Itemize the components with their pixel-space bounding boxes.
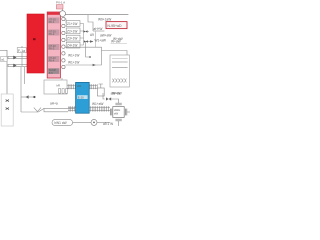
wire bus right of boxes <box>80 24 84 46</box>
U1 top flange <box>115 103 121 105</box>
svg-text:aW: aW <box>77 84 82 88</box>
U1 left flange <box>110 109 111 116</box>
furnace block F1 <box>27 14 44 73</box>
wire stub <box>86 42 90 58</box>
svg-text:PV-1 A: PV-1 A <box>56 0 65 4</box>
wire vertical mid <box>95 32 97 48</box>
vent valve top <box>62 5 64 11</box>
tag pink top <box>56 5 63 9</box>
comb pipe lower right <box>89 106 110 111</box>
wire reflux out <box>84 41 93 43</box>
cooler E2 blue <box>76 82 90 113</box>
valve X1 <box>6 100 9 102</box>
wire U1 top <box>111 99 118 103</box>
svg-text:aW: aW <box>114 112 119 116</box>
valve V1b <box>84 40 88 42</box>
cooler label band <box>77 95 87 99</box>
wire drop right <box>88 15 93 31</box>
unit U1 body <box>113 107 124 118</box>
nozzle N5 <box>62 45 65 48</box>
svg-text:a1: a1 <box>1 58 5 62</box>
tag oval fuel <box>52 119 73 125</box>
comb pipe lower left <box>68 106 76 111</box>
wire V3 up <box>103 93 105 99</box>
svg-text:W1+1W: W1+1W <box>68 60 79 64</box>
svg-text:A9: A9 <box>90 33 94 37</box>
svg-text:PK-2: PK-2 <box>49 32 55 36</box>
pump P1 <box>91 119 97 125</box>
feed pipe 1 <box>8 56 27 58</box>
wire top main <box>66 14 129 16</box>
svg-text:N-95+aD: N-95+aD <box>107 24 122 28</box>
svg-text:F-1a: F-1a <box>18 49 25 53</box>
nozzle N4 <box>62 38 65 41</box>
svg-text:W1+1W: W1+1W <box>68 53 79 57</box>
nozzle N3 <box>62 31 65 34</box>
node on furnace <box>33 38 36 40</box>
wire U1 bottom <box>118 121 120 126</box>
T2 stem <box>99 84 103 88</box>
comb pipe upper left <box>67 84 76 89</box>
label box L2 <box>66 28 80 34</box>
reboiler tubes <box>59 89 61 94</box>
valve X2 <box>6 108 9 110</box>
wire top sub line <box>93 30 104 32</box>
drain bottom run <box>21 111 39 113</box>
wire valve stub <box>84 31 89 33</box>
wire N1 to box <box>64 19 67 24</box>
tank T1 <box>110 55 129 87</box>
U1 right flange <box>125 109 126 116</box>
svg-text:PK-3: PK-3 <box>49 47 55 51</box>
reboiler E1 <box>44 80 67 94</box>
svg-text:a9.1 W: a9.1 W <box>103 122 113 126</box>
packing bed 2 <box>48 30 59 36</box>
nozzle N1 <box>62 17 65 20</box>
packing bed 3 <box>48 44 59 50</box>
left header pipe <box>6 50 8 122</box>
packing bed 5 <box>48 68 59 74</box>
wire fuel line <box>73 121 91 123</box>
tank line 2 <box>112 67 128 69</box>
wire inlet left <box>0 49 7 51</box>
valve V2 <box>26 95 29 99</box>
label box L4 <box>66 42 80 48</box>
condenser nozzle N0 <box>60 11 66 17</box>
svg-text:W+aW: W+aW <box>113 37 123 41</box>
svg-text:hW1 aW: hW1 aW <box>54 121 66 125</box>
svg-text:aH+W: aH+W <box>94 27 103 31</box>
wire fuel line 2 <box>97 121 110 123</box>
tank line 1 <box>112 61 128 63</box>
nozzle N6 <box>62 52 65 55</box>
wire tank feed <box>102 51 128 56</box>
svg-text:aH+a: aH+a <box>50 102 58 106</box>
label box L1 <box>66 21 80 27</box>
column top band <box>48 12 61 15</box>
svg-text:W9+1aW: W9+1aW <box>98 18 111 22</box>
wire pump riser <box>21 46 23 66</box>
burner pipe <box>39 108 76 111</box>
drain valve line <box>21 96 34 98</box>
packing bed 4 <box>48 56 59 62</box>
svg-text:aW+aW: aW+aW <box>100 33 111 37</box>
svg-text:E-20: E-20 <box>78 95 84 99</box>
label box feed <box>17 48 26 53</box>
nozzle N2 <box>62 24 65 27</box>
small tank T2 <box>97 88 104 96</box>
packing bed 1 <box>48 18 59 24</box>
svg-text:hR: hR <box>57 84 61 88</box>
svg-text:Z3+1W: Z3+1W <box>67 37 77 41</box>
feed pipe 2 <box>8 64 27 66</box>
column C1 shell <box>47 12 60 78</box>
svg-text:W1+aW: W1+aW <box>92 102 103 106</box>
comb pipe upper right <box>89 84 98 89</box>
U1 bottom flange <box>115 119 121 121</box>
svg-text:W1+aW: W1+aW <box>95 39 106 43</box>
nozzle N8 <box>62 65 65 68</box>
svg-text:B-5: B-5 <box>49 71 54 75</box>
svg-text:Z2+1W: Z2+1W <box>67 29 77 33</box>
svg-text:PK-1: PK-1 <box>49 20 55 24</box>
nozzle N7 <box>62 59 65 62</box>
valve V3 <box>106 97 111 100</box>
tank line 0 <box>112 57 128 59</box>
wire U1 right out <box>127 111 130 113</box>
tag box product red <box>106 22 127 29</box>
tag box left edge <box>1 57 8 62</box>
svg-text:Z1+1W: Z1+1W <box>67 22 77 26</box>
wire product loop <box>65 47 101 65</box>
utility box bottom left <box>1 94 13 126</box>
svg-text:aW+W: aW+W <box>111 91 121 95</box>
drain riser <box>21 67 25 112</box>
wire column to reboiler <box>61 78 63 80</box>
tank hatch band <box>112 79 126 83</box>
funnel <box>34 108 41 112</box>
valve V1 <box>84 30 88 32</box>
label box L3 <box>66 35 80 41</box>
svg-text:PK-4: PK-4 <box>49 59 55 63</box>
